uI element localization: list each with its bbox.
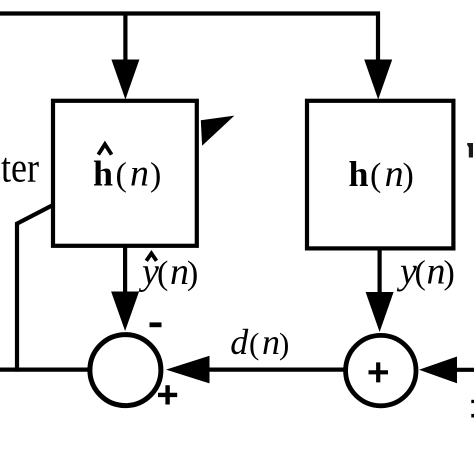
- svg-text:y(n): y(n): [396, 251, 455, 293]
- svg-text:ter: ter: [1, 146, 39, 192]
- svg-text:h(n): h(n): [349, 153, 414, 195]
- svg-text:y(n): y(n): [138, 251, 198, 293]
